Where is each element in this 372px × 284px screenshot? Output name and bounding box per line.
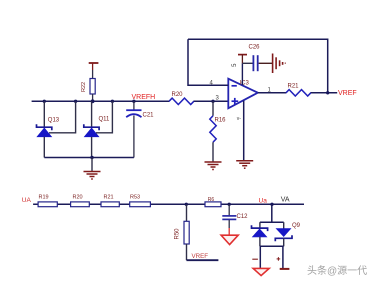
capacitor C21 [126, 101, 154, 157]
svg-text:R21: R21 [288, 84, 300, 90]
wire top-left horizontal rail [32, 100, 170, 102]
minus mark [252, 258, 258, 260]
pin V- wire [243, 101, 245, 161]
zener diode Q9 right [275, 222, 300, 246]
wire Q9 bottom rail [260, 245, 284, 247]
svg-text:R16: R16 [215, 118, 227, 124]
svg-text:C26: C26 [249, 45, 261, 51]
svg-text:Q9: Q9 [292, 223, 301, 229]
ground GND triangle below C12 [221, 220, 238, 245]
resistor R16 [210, 101, 226, 162]
wire Q9 top rail [260, 221, 284, 223]
svg-text:VREFH: VREFH [132, 94, 156, 101]
node dots on top rail [43, 99, 215, 103]
resistor R20 [169, 92, 194, 104]
node dots bottom rail [185, 203, 274, 206]
ground GND triangle below Q9 [253, 268, 269, 275]
svg-text:R20: R20 [73, 194, 83, 200]
power bar minus rail [280, 268, 290, 270]
wire Q9 right tail [282, 246, 284, 268]
pin 4 wire [188, 39, 228, 85]
net stub VREF bottom [187, 259, 219, 261]
ground below R16 [205, 162, 222, 170]
feedback wire top [188, 39, 328, 93]
svg-text:Q11: Q11 [99, 116, 111, 122]
svg-text:Ua: Ua [259, 197, 268, 204]
resistor R20b [71, 194, 90, 206]
power bar VCC [89, 63, 99, 79]
svg-text:R20: R20 [172, 92, 184, 98]
output wire pin 1 [258, 92, 287, 94]
svg-text:IC3: IC3 [240, 80, 250, 86]
resistor R53 [130, 194, 151, 206]
wire Q9 left tail [259, 246, 261, 268]
svg-text:头条@源一代: 头条@源一代 [307, 264, 367, 277]
svg-text:Q13: Q13 [48, 117, 60, 123]
wire Q9 drop [271, 204, 273, 222]
svg-text:C21: C21 [143, 113, 155, 119]
svg-text:VA: VA [281, 196, 290, 203]
svg-text:R21: R21 [104, 194, 114, 200]
svg-text:R50: R50 [175, 228, 181, 240]
resistor R6 [205, 197, 221, 207]
zener diode Q11 [84, 101, 110, 157]
plus mark [277, 257, 281, 261]
svg-text:3: 3 [216, 95, 220, 101]
svg-text:VREF: VREF [338, 90, 357, 97]
resistor R22 [81, 79, 95, 102]
svg-text:v-: v- [237, 116, 242, 122]
ground below op-amp [236, 161, 253, 169]
resistor R21 [286, 84, 311, 97]
resistor R21b [101, 194, 119, 206]
op-amp IC3 [228, 79, 257, 109]
zener diode Q13 [37, 101, 60, 157]
svg-text:C12: C12 [237, 214, 249, 220]
resistor R19 [38, 194, 57, 206]
wire bottom rail of diode group [44, 157, 134, 159]
svg-text:R19: R19 [39, 194, 49, 200]
wire Q13 corner branch [49, 101, 76, 133]
svg-text:5: 5 [232, 63, 238, 67]
svg-text:R6: R6 [208, 197, 215, 203]
resistor R50 [175, 204, 190, 260]
zener diode Q9 left [252, 222, 268, 246]
wire bottom rail [33, 203, 304, 205]
svg-text:VREF: VREF [192, 253, 209, 260]
svg-text:UA: UA [22, 197, 32, 204]
wire Q11 corner branch [96, 101, 112, 133]
svg-text:R22: R22 [81, 82, 87, 92]
ground below diode group [84, 158, 101, 180]
capacitor C26 [238, 45, 272, 72]
capacitor C12 [222, 204, 248, 220]
ground sideways at C26 [273, 54, 286, 74]
node on bottom rail [90, 156, 93, 159]
svg-text:R53: R53 [130, 194, 140, 200]
pin 5 wire [241, 63, 243, 85]
